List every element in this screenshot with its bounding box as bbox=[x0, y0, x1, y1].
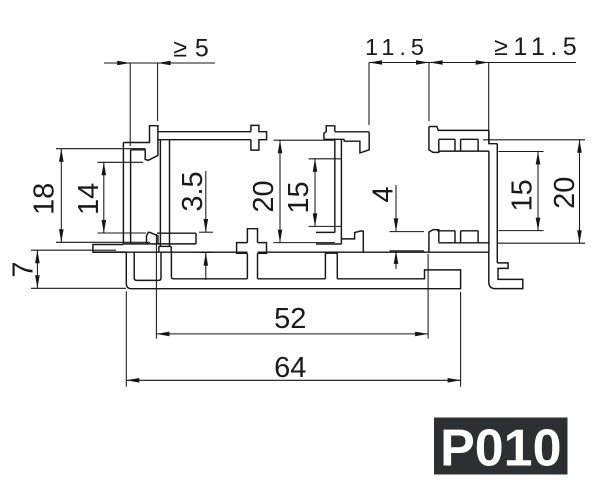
arrow 11.5 left bbox=[369, 60, 382, 65]
right bottom teeth bbox=[455, 231, 478, 243]
middle wall right edge bbox=[340, 139, 342, 244]
dim 20r line bbox=[579, 140, 581, 243]
svg-text:18: 18 bbox=[29, 183, 61, 215]
dim 7 line bbox=[36, 250, 38, 288]
dim 15m line bbox=[314, 159, 316, 227]
svg-text:3.5: 3.5 bbox=[177, 171, 209, 211]
screw boss 3 (rail2 left end) bbox=[324, 126, 335, 140]
dim >=11.5 ext right bbox=[488, 63, 490, 145]
dim 64 ext left bbox=[125, 291, 127, 386]
part number box P010 bbox=[434, 418, 568, 478]
arrow 3.5 top bbox=[204, 219, 209, 232]
svg-text:11.5: 11.5 bbox=[365, 34, 429, 60]
dim 15r ext bottom bbox=[499, 230, 544, 232]
svg-text:15: 15 bbox=[506, 179, 538, 211]
svg-text:14: 14 bbox=[73, 183, 105, 215]
arrow 15m bottom bbox=[313, 213, 318, 226]
dim 3.5 tick top bbox=[199, 231, 213, 233]
arrow >=11.5 right bbox=[476, 60, 489, 65]
arrow >=5 right bbox=[158, 61, 171, 66]
dim 18 ext top bbox=[56, 148, 146, 150]
divider wall right edge bbox=[169, 140, 171, 247]
arrow 64 left bbox=[126, 378, 139, 383]
base plate outline bbox=[126, 252, 460, 289]
arrow 18 bottom bbox=[59, 229, 64, 242]
dim 14 ext top bbox=[98, 161, 144, 163]
arrow 52 left bbox=[156, 332, 169, 337]
dim 4 line lower bbox=[395, 251, 397, 269]
right wall shoulder bbox=[489, 130, 497, 143]
base top edge bbox=[93, 251, 489, 253]
right bottom rail left lip bbox=[429, 230, 439, 253]
dim 20r ext top bbox=[483, 139, 585, 141]
dim >=5 line bbox=[104, 62, 215, 64]
right top teeth line bbox=[439, 138, 478, 140]
dim 4 tick top bbox=[390, 231, 425, 233]
rail1 top edge bbox=[158, 131, 251, 133]
dim 52 ext left bbox=[155, 234, 157, 339]
arrow 15r top bbox=[536, 152, 541, 165]
dim 15r ext top bbox=[499, 151, 544, 153]
bottom-left hook bbox=[147, 232, 158, 244]
dim 3.5 line lower bbox=[205, 253, 207, 280]
dim 3.5 tick bottom bbox=[199, 251, 213, 253]
top-left hook bbox=[123, 126, 157, 161]
dim >=5 ext right bbox=[157, 63, 159, 121]
svg-text:4: 4 bbox=[368, 186, 400, 202]
svg-text:7: 7 bbox=[7, 261, 39, 277]
base cavity left bbox=[134, 252, 161, 280]
dim 20m ext bottom bbox=[274, 242, 335, 244]
dim 3.5 line upper bbox=[205, 171, 207, 232]
dim 7 ext top bbox=[31, 249, 116, 251]
right top rail top edge bbox=[429, 127, 489, 131]
arrow 11.5 right bbox=[416, 60, 429, 65]
divider wall foot top bbox=[159, 245, 171, 247]
right foot bbox=[489, 252, 523, 288]
dim 11.5 ext left bbox=[368, 63, 370, 126]
right wall inner edge bbox=[488, 151, 490, 252]
svg-text:52: 52 bbox=[274, 303, 306, 335]
arrow >=5 left bbox=[117, 61, 130, 66]
rail2 top + right hook bbox=[335, 132, 369, 153]
dim 20r ext bottom bbox=[498, 242, 586, 244]
svg-text:P010: P010 bbox=[440, 420, 561, 478]
right bottom rail topside bbox=[439, 242, 489, 244]
dim >=11.5 ext left bbox=[428, 63, 430, 122]
arrow 64 right bbox=[448, 378, 461, 383]
screw boss 2 legs bbox=[247, 253, 257, 278]
bottom rail ledge top (left) bbox=[157, 232, 196, 234]
arrow 20r top bbox=[577, 140, 582, 153]
arrow 15m top bbox=[313, 159, 318, 172]
arrow 20r bottom bbox=[577, 230, 582, 243]
dim 64 line bbox=[126, 379, 460, 381]
right top teeth bbox=[455, 139, 478, 151]
dim 14 ext bottom bbox=[98, 232, 147, 234]
dim 18 line bbox=[60, 149, 62, 243]
divider foot left bbox=[158, 246, 160, 252]
dim >=5 ext left bbox=[129, 63, 131, 146]
arrow 7 top bbox=[35, 250, 40, 263]
arrow 52 right bbox=[415, 332, 428, 337]
arrow >=11.5 left bbox=[430, 60, 443, 65]
bottom rail ledge bottom (right) bbox=[316, 243, 341, 245]
rail1 bottom edge bbox=[158, 139, 251, 141]
left wall inner edge bbox=[130, 150, 132, 244]
left flange bbox=[93, 245, 126, 253]
right bottom teeth line bbox=[437, 230, 478, 232]
dim 15r line bbox=[537, 152, 539, 231]
svg-text:64: 64 bbox=[274, 352, 306, 384]
dim 20m ext top bbox=[274, 139, 335, 141]
arrow 4 top bbox=[394, 218, 399, 231]
dim 64 ext right bbox=[460, 292, 462, 387]
dim 52 line bbox=[156, 333, 428, 335]
svg-text:15: 15 bbox=[283, 181, 315, 213]
dim 7 ext bottom bbox=[31, 287, 126, 289]
svg-text:20: 20 bbox=[248, 180, 280, 212]
dim 52 ext right bbox=[427, 254, 429, 339]
dim >=11.5 line bbox=[429, 62, 576, 64]
svg-text:≥5: ≥5 bbox=[173, 34, 217, 62]
arrow 4 bottom bbox=[394, 251, 399, 264]
left wall outer edge bbox=[122, 143, 124, 245]
bottom rail ledge bottom (left) bbox=[158, 243, 196, 245]
base pillar under middle wall bbox=[325, 253, 337, 279]
arrow 7 bottom bbox=[35, 275, 40, 288]
svg-text:20: 20 bbox=[549, 177, 581, 209]
dim 14 line bbox=[103, 162, 105, 233]
middle wall left edge bbox=[334, 139, 336, 233]
arrow 14 bottom bbox=[102, 220, 107, 233]
dim 18 ext bottom bbox=[56, 241, 150, 243]
dim 4 line upper bbox=[395, 185, 397, 231]
screw boss 2 arms bbox=[237, 243, 267, 254]
right top rail left lip bbox=[429, 127, 439, 153]
arrow 18 top bbox=[59, 149, 64, 162]
dim 15m ext bottom bbox=[309, 225, 342, 227]
screw boss 1 (top) bbox=[251, 125, 267, 150]
arrow 20m top bbox=[278, 140, 283, 153]
base cavity floor + left edge bbox=[171, 252, 325, 278]
bottom rail ledge top (right) bbox=[316, 231, 335, 233]
arrow 20m bottom bbox=[278, 230, 283, 243]
divider wall left edge bbox=[159, 140, 161, 247]
left wall bottom edge bbox=[123, 243, 157, 245]
arrow 14 top bbox=[102, 162, 107, 175]
svg-text:≥11.5: ≥11.5 bbox=[494, 33, 582, 61]
dim 15m ext top bbox=[309, 158, 342, 160]
right top rail underside bbox=[439, 150, 489, 152]
arrow 3.5 bottom bbox=[204, 253, 209, 266]
middle wall bottom hook bbox=[341, 231, 363, 252]
dim 11.5 line bbox=[369, 62, 429, 64]
divider foot right bbox=[170, 246, 172, 252]
rail2 bottom edge bbox=[324, 138, 344, 140]
right wall outer edge bbox=[496, 144, 498, 263]
screw boss 2 stem bbox=[247, 229, 257, 243]
dim 4 tick bottom bbox=[390, 250, 425, 252]
dim 20m line bbox=[279, 140, 281, 242]
arrow 15r bottom bbox=[536, 218, 541, 231]
bottom rail ledge end bbox=[195, 233, 197, 244]
